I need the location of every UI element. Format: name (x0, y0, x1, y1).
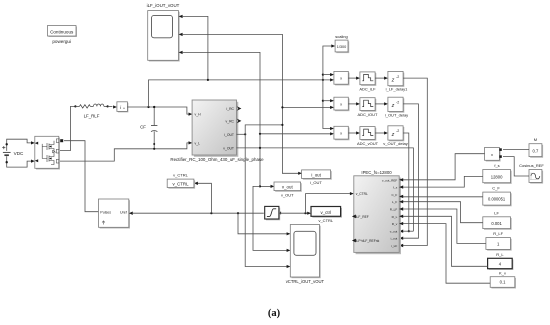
svg-text:z: z (391, 103, 395, 109)
wire sensor out to vH node (127, 107, 191, 114)
wire stub to mult1 in1 (323, 74, 333, 76)
wire branch to From v_CTRL (198, 183, 212, 213)
bridge input ports (35, 142, 38, 145)
svg-text:v_CTRL: v_CTRL (173, 173, 188, 178)
wire iLF measurement line (149, 80, 334, 107)
svg-text:-2: -2 (396, 101, 399, 105)
svg-text:v_RC: v_RC (226, 120, 235, 124)
saturation block (265, 206, 281, 220)
wire iOUT up-branch to iOUT vertical (245, 125, 282, 134)
mosfet bridge block (35, 136, 60, 169)
svg-text:powergui: powergui (52, 39, 71, 44)
output port iLF*dLF_REFnk (352, 239, 356, 243)
bridge right port squares g A B (56, 139, 59, 143)
wire 12800 to IPEC f_s (400, 176, 483, 187)
svg-text:ADC_iLF: ADC_iLF (359, 86, 376, 91)
svg-text:i_out: i_out (390, 237, 397, 241)
svg-text:L_F: L_F (392, 200, 397, 204)
svg-text:vCTRL_iOUT_vOUT: vCTRL_iOUT_vOUT (286, 279, 325, 284)
svg-text:R_LF: R_LF (390, 208, 398, 212)
svg-text:v_out: v_out (390, 229, 398, 233)
svg-text:R_L: R_L (496, 252, 504, 257)
svg-text:i_out: i_out (311, 173, 321, 178)
quantizer ADC_vOUT (348, 127, 378, 146)
wire bridge A to inductor (60, 106, 75, 150)
svg-text:0.7: 0.7 (532, 148, 538, 153)
svg-text:z: z (391, 77, 395, 83)
wire rectifier v_OUT to right (237, 148, 414, 231)
inductor-resistor LF_RLF (74, 104, 112, 118)
svg-text:R_L: R_L (392, 215, 398, 219)
constant C_F 0.000051 (483, 185, 512, 206)
svg-text:-2: -2 (396, 75, 399, 79)
svg-text:i_LF_delay1: i_LF_delay1 (385, 87, 408, 92)
svg-text:Pulses: Pulses (100, 210, 111, 214)
svg-text:x: x (340, 131, 342, 136)
svg-text:v_L: v_L (195, 142, 201, 146)
svg-text:v_CTRL: v_CTRL (172, 182, 189, 187)
Goto tag i_out (298, 170, 332, 185)
svg-text:R_LF: R_LF (493, 231, 503, 236)
svg-text:v_ctrl: v_ctrl (321, 210, 332, 215)
gain scaling 1/300 (335, 34, 349, 53)
Goto tag v_out (259, 182, 302, 197)
svg-text:Uref: Uref (120, 210, 127, 214)
svg-text:IPEC_fs=12800: IPEC_fs=12800 (361, 170, 392, 175)
scope vCTRL_iOUT_vOUT (286, 225, 325, 285)
svg-text:x: x (340, 76, 342, 81)
constant R_LF 1 (486, 231, 512, 251)
scope iLF_iOUT_vOUT (147, 3, 183, 62)
svg-text:v_OUT: v_OUT (281, 192, 294, 197)
wire v_CTRL control line (132, 212, 264, 214)
DC source VDC (2, 139, 35, 167)
wire vOUT branch down to scope2 (253, 186, 289, 250)
wire scope-in1 from iLF line (182, 16, 208, 80)
svg-text:iLF*dLF_REFnk: iLF*dLF_REFnk (356, 239, 380, 243)
wire branch to bottom scope in1 (238, 213, 289, 234)
svg-text:ADC_iOUT: ADC_iOUT (357, 112, 378, 117)
svg-text:v_CTRL: v_CTRL (318, 218, 333, 223)
wire 1 to IPEC R_LF (400, 209, 486, 243)
svg-text:f_s: f_s (494, 163, 499, 168)
wire vOUT raw + z3 join into IPEC v_out (400, 230, 414, 232)
wire z2 out to IPEC i_out (400, 104, 419, 238)
delay v_OUT_delay (375, 126, 408, 146)
svg-text:v_out: v_out (282, 185, 294, 190)
svg-text:Rectifier_RC_100_Ohm_430_uF_si: Rectifier_RC_100_Ohm_430_uF_single_phase (170, 157, 264, 162)
svg-text:ADC_vOUT: ADC_vOUT (357, 141, 379, 146)
wire z1 out to IPEC i_LF (400, 78, 427, 245)
current sensor block (113, 102, 128, 113)
wire z3 out to IPEC v_out (403, 133, 409, 231)
mosfet Q upper (42, 141, 54, 159)
svg-text:v_CTRL: v_CTRL (356, 192, 368, 196)
wire scaling feed vertical (323, 46, 334, 80)
mosfet Q lower (42, 152, 54, 165)
svg-text:K_v: K_v (499, 270, 506, 275)
svg-text:LF_RLF: LF_RLF (84, 113, 100, 118)
wire stub to mult2 in1 (323, 100, 333, 102)
subsystem Pulse generator (99, 199, 133, 229)
unconnected output ports i_RC v_RC (237, 106, 242, 111)
product block row2 (334, 97, 350, 111)
svg-text:M: M (534, 137, 537, 142)
wire rectifier i_OUT (237, 133, 246, 135)
wire iOUT down-branch to scope3 (245, 134, 289, 266)
svg-text:Cosinus_REF: Cosinus_REF (519, 163, 544, 168)
svg-text:x: x (340, 102, 342, 107)
svg-text:VDC: VDC (14, 151, 24, 156)
svg-text:x: x (491, 152, 493, 157)
svg-text:v_OUT: v_OUT (223, 147, 234, 151)
svg-text:LF: LF (494, 210, 499, 215)
constant f_s 12800 (483, 163, 512, 184)
svg-text:0.1: 0.1 (500, 280, 506, 285)
constant LF 0.001 (483, 210, 512, 230)
svg-text:i_LF: i_LF (391, 244, 397, 248)
svg-text:R_v: R_v (392, 222, 398, 226)
product block M x cos (485, 147, 502, 161)
svg-text:z: z (391, 132, 395, 138)
svg-text:v_out_REF: v_out_REF (382, 178, 398, 182)
svg-text:i_OUT: i_OUT (310, 180, 322, 185)
wire saturation out to v_ctrl goto and IPEC (279, 212, 310, 214)
svg-text:iLF_REF: iLF_REF (356, 215, 369, 219)
svg-text:CF: CF (140, 125, 146, 130)
sine source Cosinus_REF (519, 163, 544, 184)
Goto tag v_ctrl (311, 207, 342, 224)
svg-text:0.000051: 0.000051 (488, 197, 506, 202)
wire 0.7 to product (503, 149, 529, 151)
svg-text:0.001: 0.001 (491, 221, 502, 226)
quantizer ADC_iLF (348, 72, 376, 91)
product block row1 (334, 71, 350, 85)
constant K_v 0.1 (490, 270, 516, 288)
svg-text:C_F: C_F (492, 185, 500, 190)
wire 0.001 to IPEC L_F (400, 202, 483, 223)
svg-text:v_OUT_delay: v_OUT_delay (383, 141, 407, 146)
wire sine to product (503, 157, 529, 176)
svg-text:(a): (a) (268, 308, 281, 319)
svg-text:i_RC: i_RC (226, 107, 234, 111)
product block row3 (334, 126, 350, 140)
constant R_L 4 (488, 252, 514, 270)
capacitor CF (140, 106, 157, 150)
svg-text:i_OUT_delay: i_OUT_delay (385, 112, 408, 117)
output port iLF_REF (352, 215, 356, 219)
svg-text:f_s: f_s (393, 186, 398, 190)
wire scope-in2 from iOUT vertical (182, 34, 299, 173)
wire row3 input from vOUT vertical (260, 133, 333, 135)
wire product out to IPEC v_out_REF (400, 154, 485, 180)
svg-text:iLF_iOUT_vOUT: iLF_iOUT_vOUT (147, 3, 180, 8)
wire 4 to IPEC R_L (400, 216, 488, 266)
wire row2 input from iOUT vertical (282, 106, 333, 108)
wire 0.1 to IPEC R_v (400, 224, 490, 284)
delay i_LF_delay1 (375, 71, 408, 91)
wire to IPEC v_CTRL input (306, 194, 353, 214)
svg-text:1/300: 1/300 (337, 45, 347, 49)
wire scope-in3 / vOUT vertical (182, 52, 260, 186)
svg-text:C_F: C_F (391, 193, 397, 197)
svg-text:Continuous: Continuous (50, 30, 74, 35)
svg-text:v_H: v_H (195, 113, 202, 117)
wire pulses to bridge gate (64, 141, 99, 212)
diode marks (53, 150, 55, 153)
svg-text:scaling: scaling (335, 34, 347, 39)
constant M 0.7 (529, 137, 543, 158)
svg-text:+: + (123, 107, 125, 111)
svg-text:-2: -2 (396, 129, 399, 133)
subsystem IPEC_fs=12800 (352, 170, 401, 254)
wire 0.000051 to IPEC C_F (400, 196, 483, 198)
svg-text:i_OUT: i_OUT (224, 133, 234, 137)
delay i_OUT_delay (375, 97, 408, 117)
powergui block (48, 26, 78, 45)
svg-text:12800: 12800 (491, 174, 503, 179)
wire bridge B bottom rail (60, 143, 192, 161)
quantizer ADC_iOUT (348, 98, 378, 117)
From tag v_CTRL (167, 173, 195, 189)
